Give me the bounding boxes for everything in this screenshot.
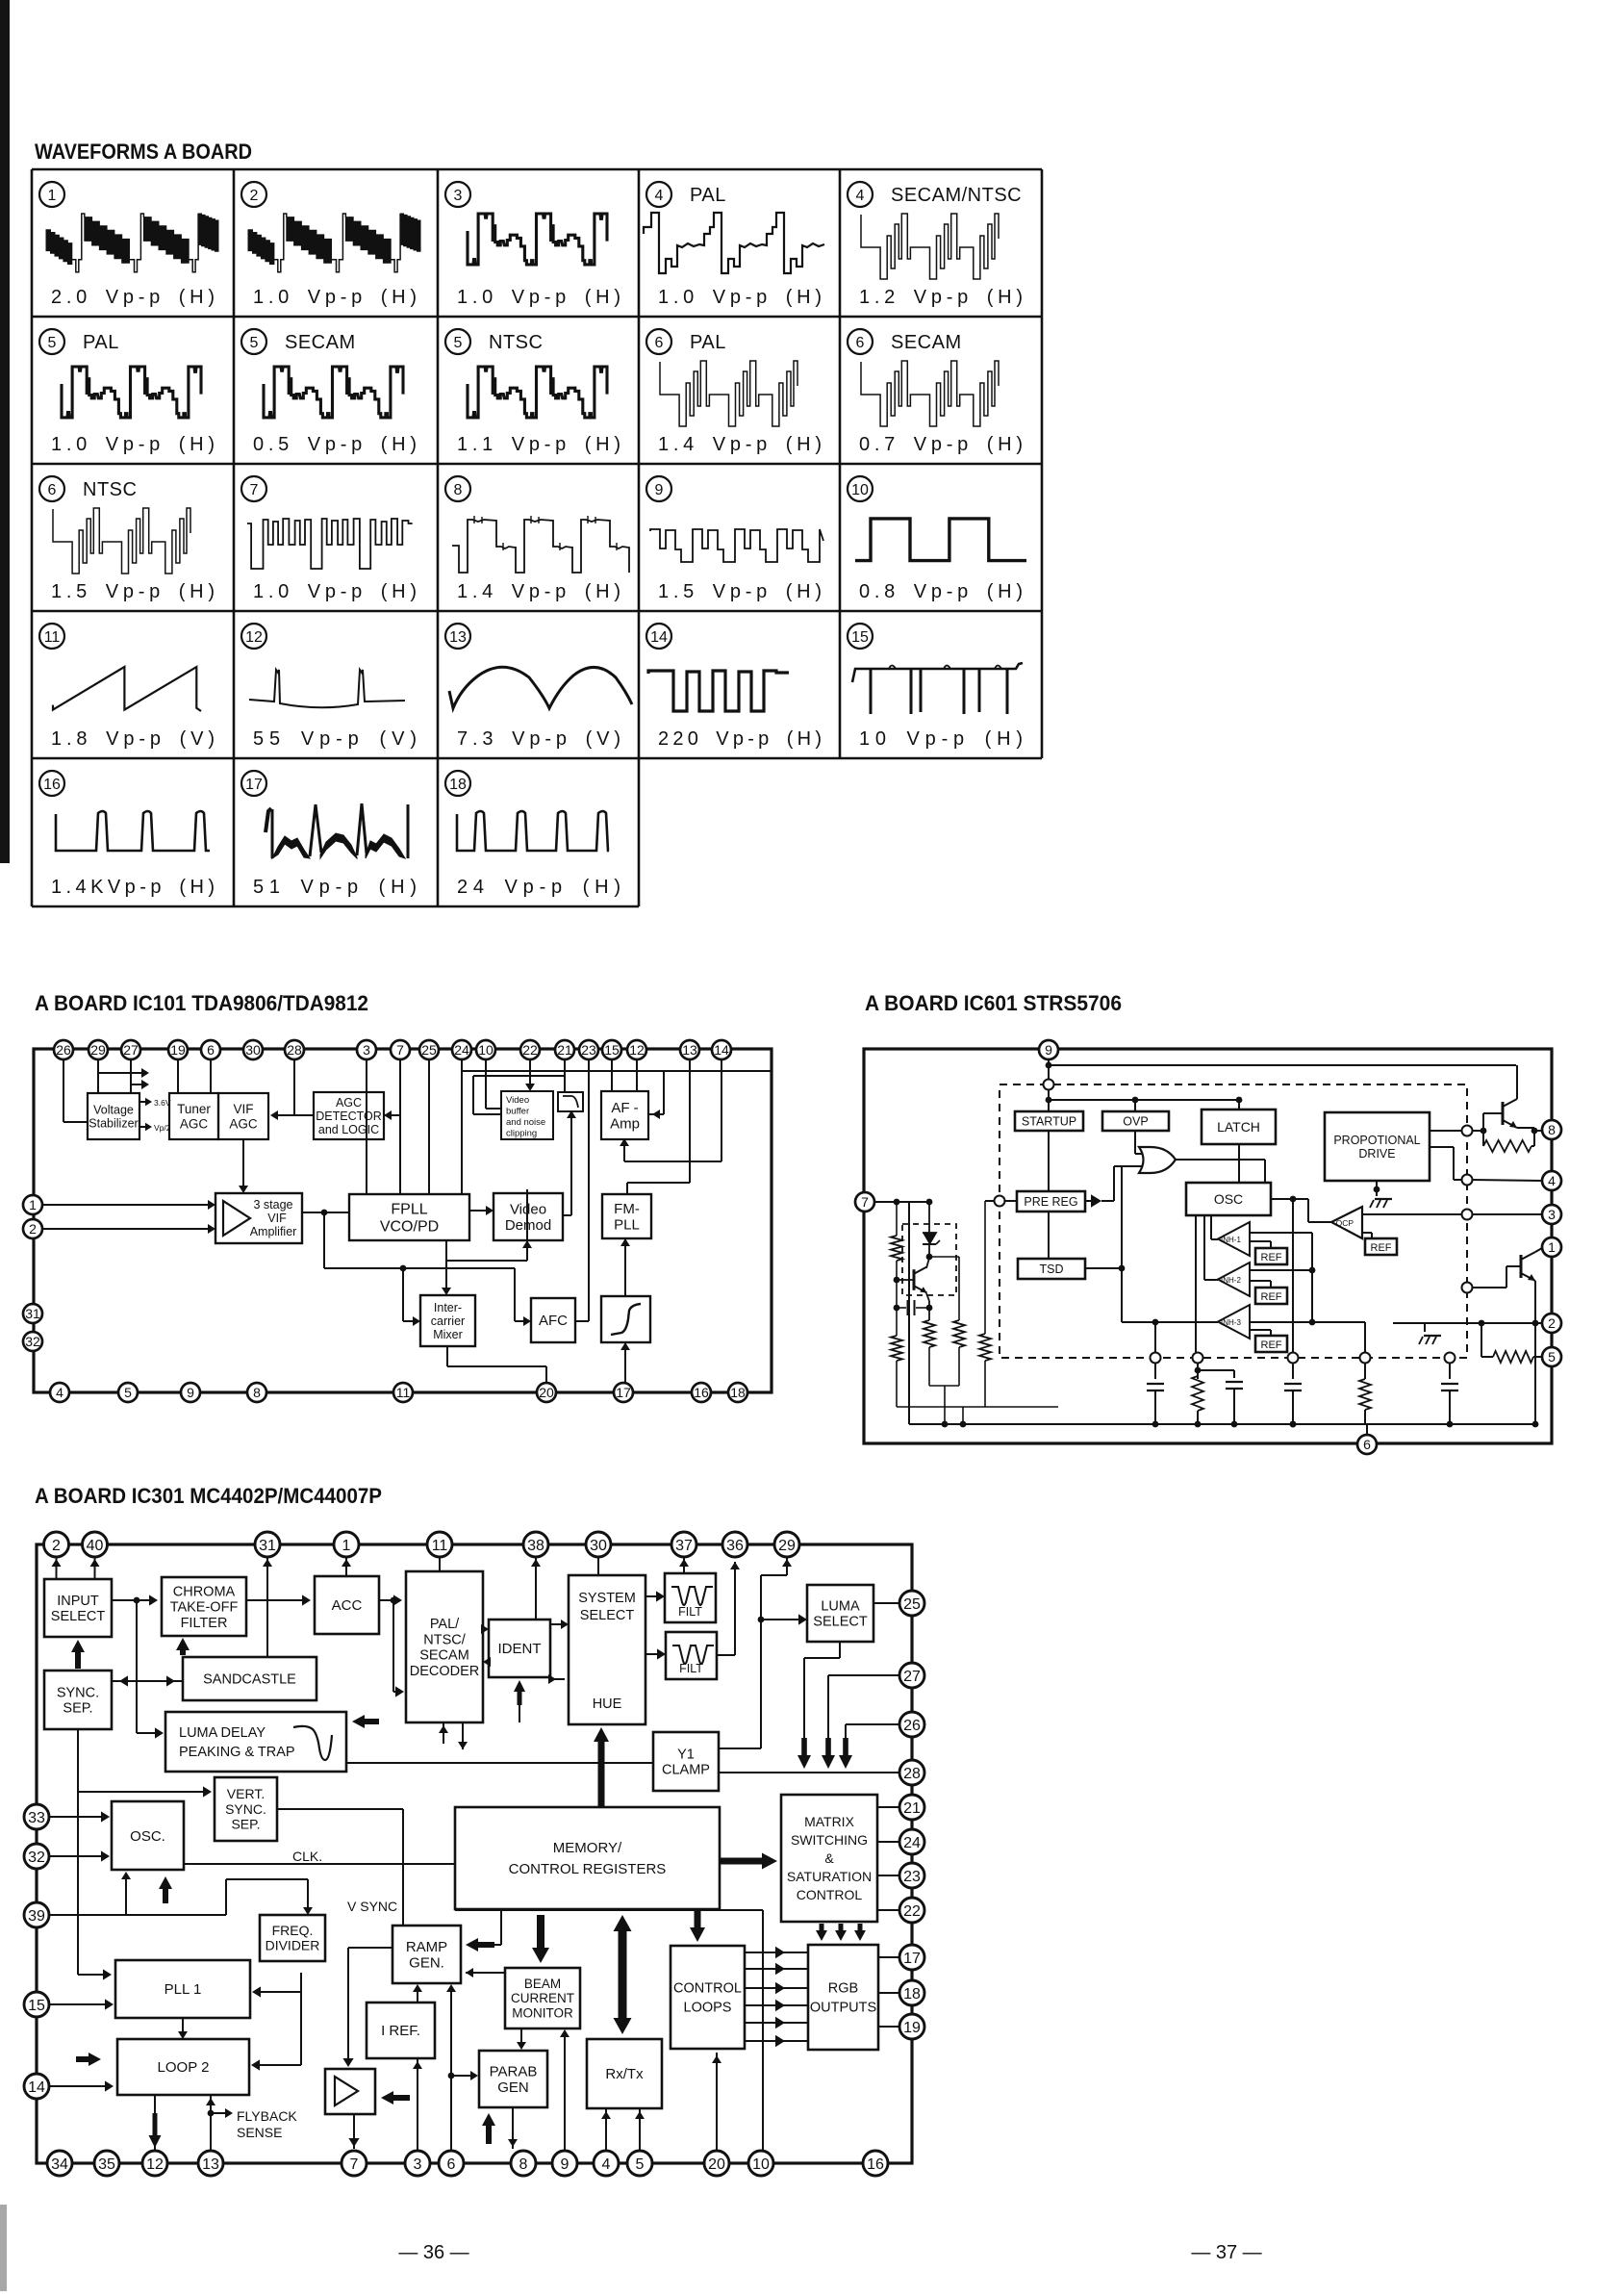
svg-text:18: 18 xyxy=(730,1385,746,1400)
svg-text:2: 2 xyxy=(52,1538,61,1554)
svg-text:36: 36 xyxy=(726,1538,744,1554)
svg-text:34: 34 xyxy=(51,2156,68,2173)
svg-text:1.0 Vp-p (H): 1.0 Vp-p (H) xyxy=(51,434,215,455)
svg-text:3.6V: 3.6V xyxy=(154,1098,171,1108)
svg-text:and noise: and noise xyxy=(506,1117,545,1128)
svg-text:SECAM: SECAM xyxy=(419,1648,469,1664)
svg-text:6: 6 xyxy=(447,2156,456,2173)
svg-text:IDENT: IDENT xyxy=(498,1641,542,1657)
svg-text:12: 12 xyxy=(245,629,263,646)
svg-text:SYSTEM: SYSTEM xyxy=(578,1591,636,1606)
svg-text:FILT: FILT xyxy=(678,1605,702,1619)
svg-text:15: 15 xyxy=(604,1042,620,1058)
svg-text:STARTUP: STARTUP xyxy=(1022,1114,1076,1128)
svg-text:31: 31 xyxy=(259,1538,276,1554)
svg-text:LUMA DELAY: LUMA DELAY xyxy=(179,1725,266,1741)
svg-text:14: 14 xyxy=(28,2079,45,2096)
svg-text:8: 8 xyxy=(519,2156,528,2173)
svg-text:Amp: Amp xyxy=(610,1116,640,1133)
svg-text:26: 26 xyxy=(56,1042,71,1058)
svg-text:DETECTOR: DETECTOR xyxy=(316,1110,382,1123)
svg-text:1.0 Vp-p (H): 1.0 Vp-p (H) xyxy=(253,581,417,602)
svg-text:Vp/2: Vp/2 xyxy=(154,1123,171,1133)
svg-text:10: 10 xyxy=(752,2156,770,2173)
svg-text:4: 4 xyxy=(56,1385,63,1400)
svg-text:VIF: VIF xyxy=(233,1102,253,1116)
svg-text:7.3 Vp-p (V): 7.3 Vp-p (V) xyxy=(457,728,620,750)
svg-text:1.0 Vp-p (H): 1.0 Vp-p (H) xyxy=(457,287,620,308)
svg-text:OSC: OSC xyxy=(1214,1191,1243,1207)
svg-text:24: 24 xyxy=(454,1042,469,1058)
svg-text:A BOARD IC301 MC4402P/MC4400: A BOARD IC301 MC4402P/MC44007P xyxy=(35,1484,382,1508)
svg-text:19: 19 xyxy=(903,2020,921,2036)
svg-text:CONTROL: CONTROL xyxy=(797,1887,863,1902)
svg-text:MEMORY/: MEMORY/ xyxy=(553,1840,622,1856)
svg-text:2: 2 xyxy=(1548,1315,1556,1331)
svg-text:LUMA: LUMA xyxy=(821,1599,860,1615)
svg-text:13: 13 xyxy=(449,629,467,646)
svg-text:AGC: AGC xyxy=(229,1116,258,1131)
svg-text:AGC: AGC xyxy=(180,1116,209,1131)
svg-text:Mixer: Mixer xyxy=(433,1328,463,1341)
svg-text:DIVIDER: DIVIDER xyxy=(266,1938,320,1953)
svg-text:27: 27 xyxy=(903,1669,921,1685)
svg-text:ACC: ACC xyxy=(332,1597,363,1614)
svg-text:21: 21 xyxy=(557,1042,572,1058)
svg-text:1: 1 xyxy=(342,1538,351,1554)
svg-text:SEP.: SEP. xyxy=(63,1701,92,1717)
svg-text:5: 5 xyxy=(636,2156,645,2173)
svg-text:PARAB: PARAB xyxy=(490,2063,538,2079)
svg-text:OUTPUTS: OUTPUTS xyxy=(810,2001,876,2016)
svg-text:7: 7 xyxy=(861,1194,869,1210)
svg-text:1.5 Vp-p (H): 1.5 Vp-p (H) xyxy=(658,581,822,602)
svg-text:LOOP 2: LOOP 2 xyxy=(158,2059,210,2076)
svg-text:SELECT: SELECT xyxy=(813,1615,868,1630)
svg-text:31: 31 xyxy=(25,1306,40,1321)
svg-text:I REF.: I REF. xyxy=(381,2023,420,2039)
svg-text:20: 20 xyxy=(539,1385,554,1400)
svg-text:SEP.: SEP. xyxy=(231,1817,260,1832)
svg-text:1.4 Vp-p (H): 1.4 Vp-p (H) xyxy=(457,581,620,602)
svg-text:8: 8 xyxy=(454,482,463,498)
svg-text:12: 12 xyxy=(146,2156,164,2173)
svg-text:— 37 —: — 37 — xyxy=(1191,2242,1261,2263)
svg-text:SECAM/NTSC: SECAM/NTSC xyxy=(891,185,1022,206)
svg-text:NTSC: NTSC xyxy=(489,332,543,353)
svg-text:29: 29 xyxy=(778,1538,796,1554)
svg-text:PROPOTIONAL: PROPOTIONAL xyxy=(1333,1134,1420,1147)
svg-text:39: 39 xyxy=(28,1908,45,1925)
svg-text:12: 12 xyxy=(629,1042,645,1058)
svg-text:SATURATION: SATURATION xyxy=(787,1869,872,1884)
svg-text:GEN: GEN xyxy=(497,2079,529,2096)
svg-text:Stabilizer: Stabilizer xyxy=(89,1116,138,1130)
svg-text:SYNC.: SYNC. xyxy=(225,1801,266,1817)
svg-text:4: 4 xyxy=(655,188,664,204)
svg-text:1.0 Vp-p (H): 1.0 Vp-p (H) xyxy=(658,287,822,308)
svg-text:35: 35 xyxy=(98,2156,115,2173)
svg-text:AFC: AFC xyxy=(539,1313,568,1329)
svg-text:buffer: buffer xyxy=(506,1107,529,1117)
svg-text:DECODER: DECODER xyxy=(410,1664,480,1679)
svg-text:OCP: OCP xyxy=(1336,1218,1354,1228)
svg-text:2: 2 xyxy=(250,188,259,204)
svg-text:REF: REF xyxy=(1261,1339,1282,1351)
svg-text:VERT.: VERT. xyxy=(227,1786,265,1801)
svg-text:SENSE: SENSE xyxy=(237,2125,282,2140)
svg-text:V SYNC: V SYNC xyxy=(347,1899,397,1914)
svg-text:LOOPS: LOOPS xyxy=(684,2001,732,2016)
svg-text:51 Vp-p (H): 51 Vp-p (H) xyxy=(253,877,417,898)
svg-text:6: 6 xyxy=(655,335,664,351)
svg-text:FILTER: FILTER xyxy=(181,1616,228,1631)
svg-text:INH-3: INH-3 xyxy=(1221,1318,1241,1327)
svg-text:1: 1 xyxy=(48,188,57,204)
svg-text:3: 3 xyxy=(454,188,463,204)
svg-text:NTSC/: NTSC/ xyxy=(423,1633,466,1648)
svg-text:0.8 Vp-p (H): 0.8 Vp-p (H) xyxy=(859,581,1023,602)
svg-text:3: 3 xyxy=(363,1042,370,1058)
svg-text:11: 11 xyxy=(396,1385,411,1400)
svg-text:2.0 Vp-p (H): 2.0 Vp-p (H) xyxy=(51,287,215,308)
svg-text:16: 16 xyxy=(43,777,61,793)
svg-text:10: 10 xyxy=(478,1042,494,1058)
svg-text:SWITCHING: SWITCHING xyxy=(791,1832,868,1848)
svg-text:AF -: AF - xyxy=(611,1100,638,1116)
svg-text:FILT: FILT xyxy=(679,1662,703,1675)
svg-text:Amplifier: Amplifier xyxy=(250,1225,297,1238)
svg-text:SELECT: SELECT xyxy=(51,1609,106,1624)
svg-text:CURRENT: CURRENT xyxy=(511,1991,574,2005)
svg-text:27: 27 xyxy=(123,1042,139,1058)
svg-text:0.7 Vp-p (H): 0.7 Vp-p (H) xyxy=(859,434,1023,455)
svg-text:A BOARD IC101 TDA9806/TDA981: A BOARD IC101 TDA9806/TDA9812 xyxy=(35,991,368,1015)
svg-text:38: 38 xyxy=(527,1538,544,1554)
svg-text:3: 3 xyxy=(414,2156,422,2173)
svg-text:18: 18 xyxy=(903,1986,921,2003)
svg-text:REF: REF xyxy=(1261,1252,1282,1263)
svg-text:PAL: PAL xyxy=(690,332,726,353)
svg-text:WAVEFORMS A BOARD: WAVEFORMS A BOARD xyxy=(35,140,252,164)
svg-text:FLYBACK: FLYBACK xyxy=(237,2108,297,2124)
svg-text:Video: Video xyxy=(506,1095,529,1106)
svg-text:9: 9 xyxy=(561,2156,570,2173)
svg-text:— 36 —: — 36 — xyxy=(398,2242,468,2263)
svg-text:GEN.: GEN. xyxy=(409,1955,444,1972)
svg-text:1.8 Vp-p (V): 1.8 Vp-p (V) xyxy=(51,728,215,750)
svg-text:1.2 Vp-p (H): 1.2 Vp-p (H) xyxy=(859,287,1023,308)
svg-text:24 Vp-p (H): 24 Vp-p (H) xyxy=(457,877,620,898)
svg-text:CLAMP: CLAMP xyxy=(662,1763,710,1778)
svg-text:16: 16 xyxy=(694,1385,709,1400)
svg-text:AGC: AGC xyxy=(336,1096,362,1110)
svg-text:1: 1 xyxy=(1548,1239,1556,1255)
svg-text:17: 17 xyxy=(616,1385,631,1400)
svg-text:11: 11 xyxy=(44,629,61,646)
svg-text:25: 25 xyxy=(421,1042,437,1058)
svg-text:1.4KVp-p (H): 1.4KVp-p (H) xyxy=(51,877,215,898)
svg-text:7: 7 xyxy=(250,482,259,498)
svg-text:PEAKING & TRAP: PEAKING & TRAP xyxy=(179,1745,295,1760)
svg-text:8: 8 xyxy=(1548,1122,1556,1137)
svg-text:FPLL: FPLL xyxy=(391,1202,427,1218)
svg-text:7: 7 xyxy=(350,2156,359,2173)
svg-text:21: 21 xyxy=(903,1800,921,1817)
svg-text:INH-2: INH-2 xyxy=(1221,1276,1241,1285)
svg-text:INH-1: INH-1 xyxy=(1221,1236,1241,1244)
svg-text:SANDCASTLE: SANDCASTLE xyxy=(203,1672,296,1688)
svg-text:32: 32 xyxy=(25,1334,40,1349)
svg-text:22: 22 xyxy=(522,1042,538,1058)
svg-text:OSC.: OSC. xyxy=(130,1828,165,1845)
svg-text:CLK.: CLK. xyxy=(292,1849,322,1864)
svg-text:5: 5 xyxy=(1548,1349,1556,1365)
svg-text:20: 20 xyxy=(708,2156,725,2173)
svg-text:30: 30 xyxy=(590,1538,607,1554)
svg-text:1.0 Vp-p (H): 1.0 Vp-p (H) xyxy=(253,287,417,308)
svg-text:RGB: RGB xyxy=(828,1981,858,1997)
svg-text:220 Vp-p (H): 220 Vp-p (H) xyxy=(658,728,822,750)
svg-text:9: 9 xyxy=(187,1385,194,1400)
svg-text:17: 17 xyxy=(245,777,263,793)
svg-text:37: 37 xyxy=(675,1538,693,1554)
svg-text:BEAM: BEAM xyxy=(524,1977,561,1991)
svg-text:PLL 1: PLL 1 xyxy=(165,1981,202,1998)
svg-text:TAKE-OFF: TAKE-OFF xyxy=(170,1600,239,1616)
svg-text:17: 17 xyxy=(903,1951,921,1967)
svg-text:10: 10 xyxy=(851,482,869,498)
svg-text:carrier: carrier xyxy=(431,1314,465,1328)
svg-text:28: 28 xyxy=(903,1766,921,1782)
svg-text:15: 15 xyxy=(851,629,869,646)
svg-text:CHROMA: CHROMA xyxy=(173,1584,236,1599)
svg-text:32: 32 xyxy=(28,1850,45,1866)
svg-text:Tuner: Tuner xyxy=(177,1102,211,1116)
svg-text:14: 14 xyxy=(714,1042,729,1058)
svg-text:MATRIX: MATRIX xyxy=(804,1814,855,1829)
svg-text:6: 6 xyxy=(48,482,57,498)
svg-text:PAL: PAL xyxy=(83,332,119,353)
svg-text:FM-: FM- xyxy=(614,1201,640,1217)
svg-text:MONITOR: MONITOR xyxy=(512,2005,573,2020)
svg-text:clipping: clipping xyxy=(506,1129,537,1139)
svg-text:and LOGIC: and LOGIC xyxy=(318,1123,379,1136)
svg-text:CONTROL REGISTERS: CONTROL REGISTERS xyxy=(509,1861,667,1877)
svg-text:LATCH: LATCH xyxy=(1217,1119,1260,1135)
svg-text:1.1 Vp-p (H): 1.1 Vp-p (H) xyxy=(457,434,620,455)
svg-text:1.5 Vp-p (H): 1.5 Vp-p (H) xyxy=(51,581,215,602)
svg-text:RAMP: RAMP xyxy=(406,1939,447,1955)
svg-text:1: 1 xyxy=(29,1197,37,1212)
svg-text:3: 3 xyxy=(1548,1207,1556,1222)
svg-text:Y1: Y1 xyxy=(677,1748,695,1763)
svg-text:1.4 Vp-p (H): 1.4 Vp-p (H) xyxy=(658,434,822,455)
svg-text:19: 19 xyxy=(170,1042,186,1058)
svg-text:24: 24 xyxy=(903,1835,921,1851)
svg-text:5: 5 xyxy=(124,1385,132,1400)
svg-text:6: 6 xyxy=(207,1042,215,1058)
svg-text:VCO/PD: VCO/PD xyxy=(380,1219,439,1236)
svg-text:29: 29 xyxy=(90,1042,106,1058)
svg-text:A BOARD IC601 STRS5706: A BOARD IC601 STRS5706 xyxy=(865,991,1122,1015)
svg-text:PAL/: PAL/ xyxy=(430,1617,460,1632)
svg-text:2: 2 xyxy=(29,1221,37,1237)
svg-text:4: 4 xyxy=(602,2156,611,2173)
svg-text:Voltage: Voltage xyxy=(93,1103,134,1116)
svg-text:15: 15 xyxy=(28,1998,45,2014)
svg-text:13: 13 xyxy=(202,2156,219,2173)
svg-text:28: 28 xyxy=(287,1042,302,1058)
svg-text:25: 25 xyxy=(903,1596,921,1613)
svg-text:4: 4 xyxy=(1548,1173,1556,1188)
svg-text:PLL: PLL xyxy=(614,1217,640,1234)
svg-text:FREQ.: FREQ. xyxy=(272,1923,314,1938)
svg-text:11: 11 xyxy=(432,1538,448,1554)
svg-text:3 stage: 3 stage xyxy=(253,1198,292,1212)
svg-text:10 Vp-p (H): 10 Vp-p (H) xyxy=(859,728,1023,750)
svg-text:8: 8 xyxy=(253,1385,261,1400)
svg-text:PRE REG: PRE REG xyxy=(1024,1195,1077,1209)
svg-text:NTSC: NTSC xyxy=(83,479,137,500)
svg-text:VIF: VIF xyxy=(267,1212,287,1225)
svg-text:5: 5 xyxy=(250,335,259,351)
svg-text:OVP: OVP xyxy=(1123,1114,1148,1128)
svg-text:6: 6 xyxy=(1363,1437,1371,1452)
svg-text:Inter-: Inter- xyxy=(434,1301,462,1314)
svg-text:23: 23 xyxy=(903,1869,921,1885)
svg-text:&: & xyxy=(824,1850,834,1866)
svg-text:6: 6 xyxy=(856,335,865,351)
svg-text:33: 33 xyxy=(28,1810,45,1826)
svg-text:40: 40 xyxy=(87,1538,104,1554)
svg-text:SECAM: SECAM xyxy=(285,332,356,353)
svg-text:5: 5 xyxy=(48,335,57,351)
svg-text:30: 30 xyxy=(245,1042,261,1058)
svg-text:INPUT: INPUT xyxy=(57,1594,99,1609)
svg-text:SYNC.: SYNC. xyxy=(57,1686,99,1701)
svg-text:0.5 Vp-p (H): 0.5 Vp-p (H) xyxy=(253,434,417,455)
svg-text:SECAM: SECAM xyxy=(891,332,962,353)
svg-text:16: 16 xyxy=(867,2156,884,2173)
svg-text:14: 14 xyxy=(650,629,668,646)
svg-text:CONTROL: CONTROL xyxy=(673,1981,742,1997)
svg-text:Rx/Tx: Rx/Tx xyxy=(605,2066,644,2082)
svg-text:18: 18 xyxy=(449,777,467,793)
svg-text:9: 9 xyxy=(1045,1042,1052,1058)
svg-text:9: 9 xyxy=(655,482,664,498)
svg-text:REF: REF xyxy=(1261,1291,1282,1303)
svg-text:HUE: HUE xyxy=(593,1696,622,1712)
svg-text:13: 13 xyxy=(682,1042,697,1058)
svg-text:23: 23 xyxy=(581,1042,596,1058)
svg-text:4: 4 xyxy=(856,188,865,204)
svg-text:22: 22 xyxy=(903,1903,921,1920)
svg-text:SELECT: SELECT xyxy=(580,1608,635,1623)
svg-text:26: 26 xyxy=(903,1718,921,1734)
svg-text:REF: REF xyxy=(1371,1242,1392,1254)
svg-text:5: 5 xyxy=(454,335,463,351)
svg-text:DRIVE: DRIVE xyxy=(1358,1147,1395,1161)
svg-text:TSD: TSD xyxy=(1040,1263,1064,1276)
svg-text:PAL: PAL xyxy=(690,185,726,206)
svg-text:7: 7 xyxy=(396,1042,404,1058)
